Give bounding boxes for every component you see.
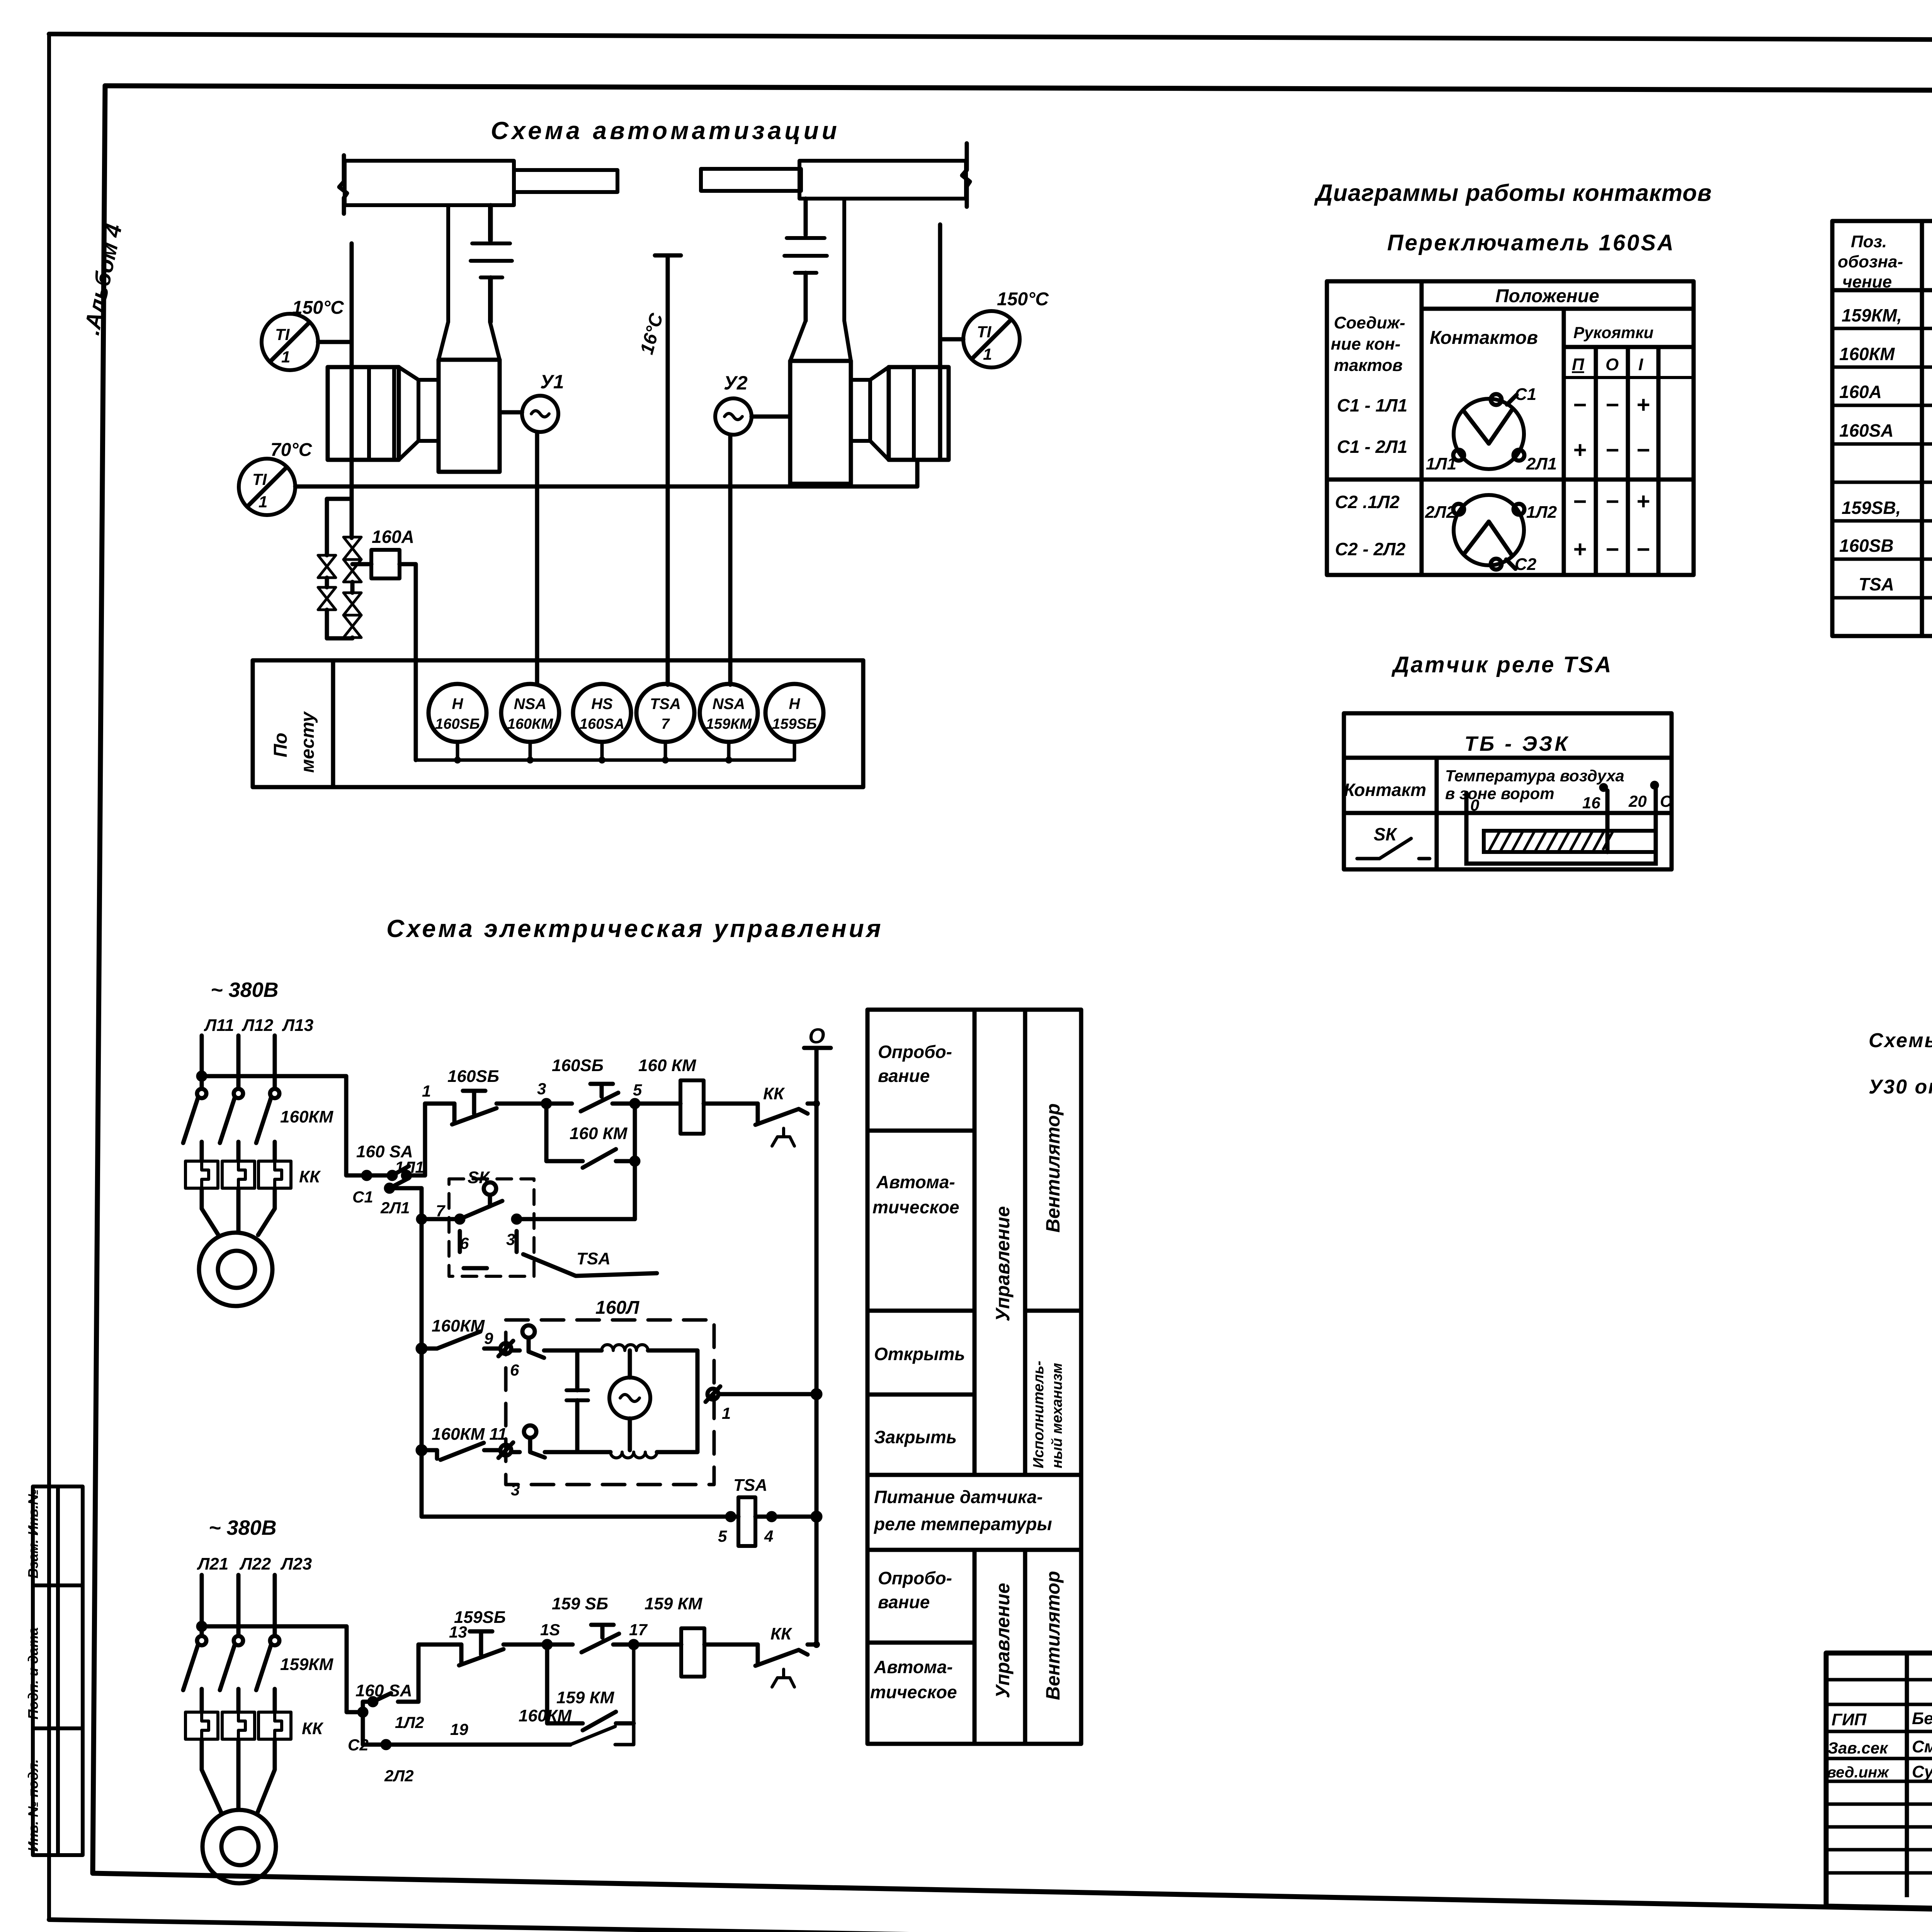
svg-text:160КМ: 160КМ xyxy=(1839,344,1895,364)
svg-text:Суслов: Суслов xyxy=(1912,1762,1932,1781)
160SA pole2 dot xyxy=(386,1185,393,1192)
node 15 dot xyxy=(544,1641,551,1648)
left damper branch wire xyxy=(489,205,493,240)
lamp NSA 160KM circle xyxy=(501,684,559,742)
right fan inlet flare xyxy=(790,321,851,361)
svg-text:159SБ: 159SБ xyxy=(454,1608,506,1627)
phase wire L11 xyxy=(200,1036,204,1088)
phase wire L13 xyxy=(273,1036,277,1088)
instrument TI-1 70C circle xyxy=(239,459,295,515)
left duct break mark xyxy=(339,155,347,214)
wire 160A to panel xyxy=(400,564,416,760)
right fan stem right wall xyxy=(842,199,846,321)
aux contact 159KM branch xyxy=(547,1645,634,1730)
svg-text:−: − xyxy=(1573,488,1586,514)
svg-text:16: 16 xyxy=(1582,794,1600,812)
motor M1 outer xyxy=(199,1233,272,1306)
thermal hook KK lower xyxy=(772,1669,794,1687)
switch 160SA pole1 wire C1-1L1 xyxy=(367,1104,425,1175)
button 159SB NC contact xyxy=(459,1645,503,1665)
svg-text:1S: 1S xyxy=(540,1621,560,1639)
inner frame left xyxy=(93,86,105,1872)
circle2 terminal right 1L2 xyxy=(1514,504,1524,515)
right fan casing xyxy=(790,361,851,484)
svg-text:О: О xyxy=(1605,355,1619,374)
TSA table row divider xyxy=(1344,811,1672,815)
fan motor U2 wave xyxy=(724,413,742,420)
lower rail continuation xyxy=(420,1219,424,1514)
circle2 contact lambda lines xyxy=(1464,522,1512,555)
svg-text:NSА: NSА xyxy=(514,696,546,713)
main valve 2 xyxy=(344,560,361,582)
svg-text:160 SА: 160 SА xyxy=(355,1681,412,1700)
circle2 C2 pointer tick xyxy=(1506,560,1515,569)
svg-text:По: По xyxy=(270,733,291,757)
svg-text:ТI: ТI xyxy=(275,325,290,344)
valve bottom connector xyxy=(327,638,352,638)
switch table col divider контактов/рукоятки xyxy=(1562,309,1566,575)
right heater cone xyxy=(870,367,889,460)
svg-text:ТSА: ТSА xyxy=(1859,574,1894,594)
panel bus wire xyxy=(416,759,794,762)
rail junction dot SK rung xyxy=(418,1216,425,1223)
button 160SB NC contact xyxy=(452,1104,497,1124)
svg-text:SК: SК xyxy=(468,1168,490,1187)
SK rung dots xyxy=(456,1216,463,1223)
svg-text:Бетехтин: Бетехтин xyxy=(1912,1709,1932,1728)
button 160SB NC plunger xyxy=(463,1091,485,1114)
svg-text:−: − xyxy=(1605,536,1619,562)
parts row line 4 xyxy=(1832,442,1932,446)
breaker 159KM pole 2 xyxy=(234,1636,243,1645)
breaker 159KM pole 1 xyxy=(197,1636,206,1645)
left damper plate bar1 xyxy=(472,241,510,245)
circle1 C1 pointer tick xyxy=(1507,395,1517,405)
scale dot 16 xyxy=(1601,785,1606,790)
svg-text:С2 .1Л2: С2 .1Л2 xyxy=(1335,492,1400,512)
svg-text:~ 380В: ~ 380В xyxy=(209,1516,277,1539)
function row 1 line xyxy=(867,1129,975,1133)
parts row line 6 xyxy=(1832,519,1932,523)
main valve 1 xyxy=(344,537,361,560)
parts row line 5 xyxy=(1832,481,1932,484)
sig row 6 xyxy=(1826,1803,1932,1806)
svg-text:4: 4 xyxy=(764,1527,773,1545)
motor leads lower xyxy=(202,1739,275,1813)
svg-text:−: − xyxy=(1573,392,1586,418)
SK rung wire xyxy=(422,1217,635,1221)
pin phi open xyxy=(500,1343,511,1354)
svg-text:вание: вание xyxy=(878,1592,930,1612)
svg-text:Опробо-: Опробо- xyxy=(878,1568,952,1588)
wire close to inductor xyxy=(512,1450,611,1454)
svg-text:−: − xyxy=(1636,536,1650,562)
feed bus lower xyxy=(199,1626,363,1712)
svg-text:160Л: 160Л xyxy=(595,1298,639,1318)
svg-text:+: + xyxy=(1573,536,1586,562)
TSA contact blade xyxy=(523,1254,657,1276)
thermal element KK pole3 xyxy=(259,1161,291,1188)
motor leads upper xyxy=(202,1188,275,1235)
lamp H 159SB circle xyxy=(765,684,823,742)
16C sensor line xyxy=(666,255,670,685)
outer page border left xyxy=(47,34,51,1920)
instrument TI-1 150C right slash xyxy=(972,320,1011,359)
wire TI150-left to riser xyxy=(318,340,352,344)
function row 6 line xyxy=(867,1641,975,1645)
svg-text:Л21: Л21 xyxy=(197,1554,228,1573)
pin phi close xyxy=(500,1445,511,1456)
svg-text:С1: С1 xyxy=(1515,385,1536,404)
main valve 3 xyxy=(344,593,361,615)
sig row 4 xyxy=(1826,1757,1932,1760)
svg-text:160SБ: 160SБ xyxy=(447,1067,499,1086)
fan motor U1 circle xyxy=(522,396,558,432)
svg-text:160SА: 160SА xyxy=(1839,420,1894,440)
svg-text:С2: С2 xyxy=(1515,555,1537,574)
function table outer xyxy=(867,1010,1081,1744)
160SA pole2 blade xyxy=(389,1179,406,1188)
svg-text:ТSА: ТSА xyxy=(733,1476,767,1495)
signal line U1 down to panel xyxy=(535,432,539,685)
svg-text:У1: У1 xyxy=(540,371,564,393)
right damper plate bar2 xyxy=(784,254,827,258)
left duct body xyxy=(345,161,514,205)
fan motor U2 circle xyxy=(715,398,752,435)
svg-text:КК: КК xyxy=(302,1719,324,1738)
contact 160KM-9 blade xyxy=(437,1332,480,1349)
SK bar hatching xyxy=(1488,831,1613,852)
switch 160SA pole 2L2 xyxy=(363,1712,570,1745)
svg-text:150°С: 150°С xyxy=(292,298,344,318)
main valve 4 xyxy=(344,615,361,638)
svg-text:Подп. и дата: Подп. и дата xyxy=(25,1628,41,1719)
svg-text:Взам. Инв.№: Взам. Инв.№ xyxy=(25,1489,41,1578)
160SA pole1 blade xyxy=(392,1166,409,1175)
inner frame bottom xyxy=(93,1873,1932,1923)
left damper plate bar3 xyxy=(481,276,502,279)
parts row line 7 xyxy=(1832,558,1932,561)
key symbol open xyxy=(522,1325,535,1338)
O rail tick xyxy=(804,1046,831,1050)
switch table header line Положение xyxy=(1422,307,1694,311)
actuator motor stems xyxy=(628,1350,632,1450)
right heater block xyxy=(889,367,949,460)
title block outer xyxy=(1826,1653,1932,1922)
sig row 7 xyxy=(1826,1825,1932,1829)
sig row 9 xyxy=(1826,1871,1932,1875)
instrument TI-1 150C right circle xyxy=(963,311,1020,367)
SK contact blade xyxy=(460,1201,502,1219)
svg-text:1Л2: 1Л2 xyxy=(1526,503,1557,522)
right damper plate bar1 xyxy=(787,236,825,240)
button 160SB NO plunger xyxy=(590,1084,613,1097)
svg-text:3: 3 xyxy=(511,1481,520,1499)
breaker 160KM pole 3 xyxy=(270,1089,279,1098)
phase wire L21 xyxy=(200,1575,204,1636)
left stamp row 1 xyxy=(33,1583,83,1587)
contact 160KM-19 blade xyxy=(570,1645,634,1745)
svg-text:Контакт: Контакт xyxy=(1344,780,1426,800)
circle1 terminal top xyxy=(1491,394,1502,405)
svg-text:У30 они аналогичны.: У30 они аналогичны. xyxy=(1869,1076,1932,1098)
pin phi 1 xyxy=(707,1389,718,1400)
svg-text:1: 1 xyxy=(281,348,290,366)
svg-text:вание: вание xyxy=(878,1066,930,1086)
switch 160SA pole 1L2 xyxy=(363,1645,418,1712)
circle1 contact V lines xyxy=(1464,410,1512,444)
svg-text:месту: месту xyxy=(298,711,318,773)
capacitor stem top xyxy=(575,1350,580,1390)
phase wire L23 xyxy=(273,1575,277,1636)
svg-text:ТБ - ЭЗК: ТБ - ЭЗК xyxy=(1464,732,1570,755)
svg-text:150°С: 150°С xyxy=(997,289,1049,310)
SK open zone lines xyxy=(1607,831,1656,852)
pin phi close slash xyxy=(498,1442,513,1458)
svg-text:Вентилятор: Вентилятор xyxy=(1042,1571,1064,1700)
plus minus marks xyxy=(1573,392,1650,562)
svg-text:Переключатель 160SА: Переключатель 160SА xyxy=(1387,230,1675,255)
svg-text:159 КМ: 159 КМ xyxy=(556,1688,615,1707)
parts row line 3 xyxy=(1832,404,1932,407)
svg-text:160 КМ: 160 КМ xyxy=(570,1124,628,1143)
svg-text:5: 5 xyxy=(633,1081,642,1099)
svg-text:С2: С2 xyxy=(348,1736,369,1754)
SK contact line xyxy=(1357,838,1411,859)
node 3 dot xyxy=(543,1100,550,1107)
inductor bottom xyxy=(611,1452,657,1458)
svg-text:У2: У2 xyxy=(724,372,748,394)
O rail junction dots xyxy=(813,1100,820,1648)
lamp HS 160SA circle xyxy=(573,684,631,742)
svg-text:160SБ: 160SБ xyxy=(552,1056,604,1075)
junction dot L11 feed xyxy=(198,1073,205,1080)
valve bypass left pipe xyxy=(327,499,349,555)
svg-text:1: 1 xyxy=(422,1082,431,1100)
svg-text:1Л2: 1Л2 xyxy=(395,1713,424,1731)
svg-text:Вентилятор: Вентилятор xyxy=(1042,1103,1064,1233)
SK dashed enclosure xyxy=(449,1179,534,1276)
svg-text:~ 380В: ~ 380В xyxy=(211,978,279,1002)
actuator 160L dashed box xyxy=(506,1320,714,1485)
button 159SB NO contact xyxy=(582,1634,619,1652)
rung close wire xyxy=(422,1450,500,1459)
svg-text:Рукоятки: Рукоятки xyxy=(1573,323,1653,342)
svg-text:159КМ: 159КМ xyxy=(706,716,752,732)
scale tick 20 xyxy=(1654,788,1658,813)
circle1 terminal right 2L1 xyxy=(1514,450,1524,461)
svg-text:Контактов: Контактов xyxy=(1430,328,1538,348)
svg-text:Л22: Л22 xyxy=(239,1554,271,1573)
function row 3 line xyxy=(867,1393,975,1397)
main valve pipe xyxy=(350,582,355,593)
motor M2 inner xyxy=(221,1828,259,1865)
svg-text:Л11: Л11 xyxy=(204,1016,234,1035)
TSA contact dash below 3 xyxy=(515,1231,519,1252)
svg-text:159 SБ: 159 SБ xyxy=(552,1594,608,1613)
left fan stem right wall xyxy=(488,205,492,322)
switch table outer box xyxy=(1327,281,1694,575)
svg-text:ГИП: ГИП xyxy=(1832,1710,1867,1729)
button 159SB NO plunger xyxy=(591,1625,614,1638)
inductor top xyxy=(602,1345,648,1350)
svg-text:5: 5 xyxy=(718,1527,727,1545)
svg-text:3: 3 xyxy=(537,1080,546,1098)
TSA heater coil xyxy=(738,1497,755,1546)
TSA table col divider xyxy=(1435,758,1439,869)
svg-text:Н: Н xyxy=(452,696,464,713)
left heater divider 1 xyxy=(367,367,371,460)
actuator motor circle xyxy=(609,1378,650,1418)
svg-text:Автома-: Автома- xyxy=(876,1172,955,1192)
bypass valve lower xyxy=(318,587,336,610)
svg-text:вед.инж: вед.инж xyxy=(1827,1764,1889,1781)
thermal element KK2 pole2 xyxy=(222,1712,255,1739)
right supply riser xyxy=(938,224,942,460)
contact KK NC lower xyxy=(755,1645,816,1666)
svg-text:Положение: Положение xyxy=(1495,286,1599,306)
TSA coil wire through xyxy=(731,1515,772,1519)
phase wire L22 xyxy=(236,1575,241,1636)
SK pin circle xyxy=(484,1182,496,1195)
svg-text:1: 1 xyxy=(983,345,992,363)
left duct nozzle xyxy=(514,170,617,192)
outer page border top xyxy=(49,34,1932,42)
scale tick 0 xyxy=(1464,793,1469,813)
switch sub col 3 xyxy=(1656,347,1661,575)
lamp stubs to bus xyxy=(457,742,794,760)
parts row line 8 xyxy=(1832,596,1932,600)
svg-text:Л23: Л23 xyxy=(280,1554,312,1573)
key symbol close xyxy=(524,1425,536,1438)
coil 160KM xyxy=(680,1080,704,1134)
switch diagram circle 1 xyxy=(1454,399,1524,469)
rung1 wire segment a xyxy=(425,1102,454,1106)
svg-text:1Л1: 1Л1 xyxy=(395,1158,424,1176)
circle2 terminal left 2L2 xyxy=(1453,504,1464,515)
left heater cone xyxy=(399,367,418,460)
wire TI150-right to riser xyxy=(940,337,963,342)
svg-text:Автома-: Автома- xyxy=(874,1657,953,1677)
svg-text:159 КМ: 159 КМ xyxy=(645,1594,703,1613)
rung13 wire c xyxy=(613,1643,681,1647)
parts col pos xyxy=(1920,221,1924,636)
aux contact 160KM branch xyxy=(546,1104,635,1219)
rung1 wire segment d xyxy=(704,1102,758,1106)
sig row 5 xyxy=(1826,1780,1932,1783)
rung close rail dot xyxy=(418,1446,425,1454)
wire pin1 to O rail xyxy=(718,1392,816,1396)
left damper plate bar2 xyxy=(471,259,512,263)
pin phi 1 slash xyxy=(706,1386,720,1402)
svg-text:NSА: NSА xyxy=(713,696,745,713)
svg-text:Соедиж-: Соедиж- xyxy=(1334,313,1405,332)
svg-text:+: + xyxy=(1636,488,1650,514)
svg-text:160А: 160А xyxy=(1839,382,1882,402)
button 160SB NO contact xyxy=(581,1093,618,1111)
riser lower segment xyxy=(350,486,354,538)
SK pin stem xyxy=(488,1195,492,1206)
svg-text:Управление: Управление xyxy=(992,1583,1014,1698)
left stamp divider vertical xyxy=(56,1486,60,1855)
svg-text:КК: КК xyxy=(763,1084,785,1103)
signal line U2 down to panel xyxy=(728,435,733,685)
svg-text:Схема электрическая управления: Схема электрическая управления xyxy=(386,915,883,942)
svg-text:160SБ: 160SБ xyxy=(435,716,480,732)
svg-text:159КМ,: 159КМ, xyxy=(1842,305,1902,325)
svg-text:17: 17 xyxy=(629,1621,648,1639)
svg-text:С1 - 1Л1: С1 - 1Л1 xyxy=(1337,395,1407,415)
TSA rung dots xyxy=(727,1513,734,1520)
breaker 160KM pole 2 xyxy=(234,1089,243,1098)
svg-text:1: 1 xyxy=(722,1404,731,1422)
circle2 terminal bottom C2 xyxy=(1491,559,1502,570)
function row 5 line full xyxy=(867,1548,1081,1552)
coil 159KM xyxy=(681,1628,704,1677)
thermal element KK pole1 xyxy=(185,1161,218,1188)
svg-text:−: − xyxy=(1605,392,1619,418)
svg-text:3: 3 xyxy=(506,1230,515,1248)
lamp NSA 159KM circle xyxy=(700,684,758,742)
bypass valve lower pipe xyxy=(325,578,329,587)
sig row 2 xyxy=(1826,1703,1932,1706)
svg-text:тактов: тактов xyxy=(1334,356,1403,375)
svg-text:Схемы выполнены для воздушно-: Схемы выполнены для воздушно- тепловых з… xyxy=(1869,1029,1932,1052)
circle1 terminal left 1L1 xyxy=(1453,450,1464,461)
svg-text:160 КМ: 160 КМ xyxy=(638,1056,697,1075)
thermal element KK pole2 xyxy=(222,1161,255,1188)
capacitor stem bottom xyxy=(575,1400,580,1450)
left supply riser xyxy=(350,243,354,538)
rung13 wire b xyxy=(503,1643,573,1647)
svg-text:Управление: Управление xyxy=(992,1206,1014,1321)
svg-text:−: − xyxy=(1605,488,1619,514)
svg-text:Исполнитель-: Исполнитель- xyxy=(1031,1361,1047,1468)
left connector box xyxy=(418,380,439,441)
svg-text:ТI: ТI xyxy=(252,470,267,488)
right duct body xyxy=(799,161,966,199)
svg-text:160SА: 160SА xyxy=(580,716,624,732)
svg-text:1: 1 xyxy=(259,493,267,511)
svg-text:обозна-: обозна- xyxy=(1838,252,1903,271)
svg-text:1Л1: 1Л1 xyxy=(1426,454,1456,473)
parts rows text xyxy=(1839,301,1932,633)
rung1 wire segment b xyxy=(497,1102,572,1106)
svg-text:9: 9 xyxy=(484,1329,493,1347)
instrument TI-1 150C left slash xyxy=(270,323,309,361)
function col divider 2 upper xyxy=(1023,1010,1027,1744)
svg-text:Зав.сек: Зав.сек xyxy=(1828,1739,1888,1757)
16C sensor line cap xyxy=(655,253,681,258)
motor M1 inner xyxy=(218,1251,255,1288)
svg-text:160КМ: 160КМ xyxy=(432,1316,485,1335)
parts table outer box xyxy=(1832,221,1932,636)
switch table col divider left xyxy=(1420,281,1424,575)
svg-text:О: О xyxy=(808,1024,825,1048)
svg-text:2Л2: 2Л2 xyxy=(384,1767,414,1785)
rung open rail dot xyxy=(418,1345,425,1352)
function row col3 line xyxy=(1025,1309,1081,1313)
O rail vertical xyxy=(815,1048,819,1645)
svg-text:160А: 160А xyxy=(372,527,414,547)
160SA lower pole dots xyxy=(369,1698,376,1705)
svg-text:160КМ: 160КМ xyxy=(507,716,554,732)
svg-text:ние кон-: ние кон- xyxy=(1331,335,1401,354)
rung open wire xyxy=(422,1347,500,1351)
bypass lower stub xyxy=(325,610,329,638)
SK bar channel xyxy=(1466,813,1656,864)
svg-text:70°С: 70°С xyxy=(270,440,313,460)
